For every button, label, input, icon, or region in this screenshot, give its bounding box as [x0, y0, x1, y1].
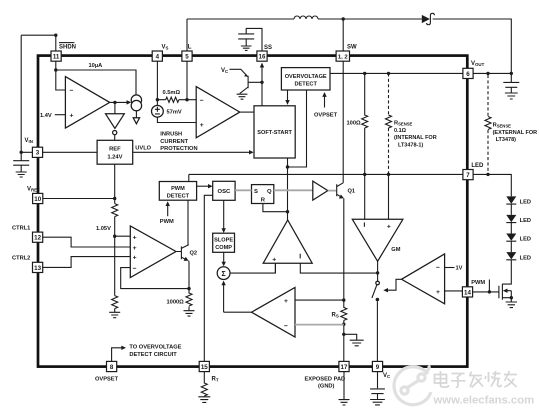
svg-text:COMP: COMP [215, 245, 232, 251]
wire inrush output to SOFT-START [240, 111, 254, 113]
ground (MOSFET source) [506, 298, 517, 308]
svg-text:8: 8 [110, 364, 114, 371]
svg-text:1000Ω: 1000Ω [167, 299, 185, 305]
pin 3 [32, 147, 42, 157]
wire CTRL2 routing [43, 257, 131, 268]
svg-text:57mV: 57mV [167, 109, 182, 115]
svg-text:VIN: VIN [25, 138, 33, 144]
ground (output cap) [505, 93, 518, 99]
resistor divider lower [112, 296, 118, 312]
resistor RSENSE internal (dashed) [386, 73, 392, 174]
pin 9 [372, 361, 382, 371]
svg-text:12: 12 [34, 235, 41, 242]
svg-text:EXPOSED PAD: EXPOSED PAD [305, 376, 346, 382]
svg-text:INRUSH: INRUSH [160, 132, 182, 138]
wire gray sense amp minus to RS bottom [295, 324, 344, 326]
wire sense to inrush minus [187, 99, 196, 101]
svg-text:PROTECTION: PROTECTION [160, 146, 197, 152]
svg-text:13: 13 [34, 265, 41, 272]
wire 10uA feed [56, 70, 136, 95]
wire top rail left segment [187, 18, 294, 20]
IC boundary (thick border) [38, 56, 467, 367]
svg-text:RSENSE: RSENSE [394, 121, 413, 127]
node 10uA tap [54, 68, 57, 71]
svg-text:+: + [200, 122, 204, 129]
wire pin14 to MOSFET gate [473, 291, 499, 293]
svg-text:5: 5 [185, 54, 189, 61]
node VREF [113, 197, 116, 200]
svg-text:SS: SS [264, 45, 272, 51]
node Q2 emitter / 1000 ohm [187, 287, 190, 290]
wire 1V comp output arrow to switch [383, 279, 401, 292]
wire SLOPE COMP to sigma arrow [222, 252, 226, 266]
pin 13 [33, 262, 43, 272]
svg-text:+: + [387, 224, 391, 231]
svg-text:10: 10 [34, 196, 41, 203]
svg-text:14: 14 [464, 289, 471, 296]
svg-text:CTRL1: CTRL1 [12, 225, 30, 231]
watermark logo elecfans [394, 366, 431, 405]
node R tie [286, 210, 289, 213]
wire R input from comparator [263, 204, 288, 212]
svg-text:+: + [436, 289, 440, 296]
wire OVD mid output down-left [288, 90, 307, 167]
node RS bottom [342, 323, 345, 326]
wire top rail right segment down to VOUT node [433, 19, 512, 73]
wire L pin5 riser to top rail [186, 19, 188, 51]
inductor L (external) [294, 16, 318, 19]
node Rsense int bottom [387, 173, 390, 176]
wire OSC to RT pin15 [204, 195, 212, 361]
wire top rail mid segment [318, 18, 422, 20]
LED D2 [506, 196, 531, 215]
wire RS bottom to ground tap and pin17 [343, 324, 345, 361]
resistor RSENSE external (dashed) [485, 75, 491, 173]
pin 15 [199, 361, 209, 371]
transistor Q1 [337, 183, 344, 199]
label 1V [445, 266, 463, 272]
svg-text:10µA: 10µA [89, 63, 103, 69]
svg-text:15: 15 [201, 364, 208, 371]
svg-text:TO OVERVOLTAGE: TO OVERVOLTAGE [129, 345, 181, 351]
wire SW riser (top rail to pin 1,2) [342, 19, 344, 51]
wire pin7 to LED string [473, 174, 511, 196]
latch SR [252, 185, 274, 204]
ground (1000 ohm) [184, 311, 195, 316]
svg-text:0.5mΩ: 0.5mΩ [163, 90, 181, 96]
wire LED line (pin7 to PWM DETECT) [189, 173, 463, 175]
wire GM output [377, 261, 379, 281]
node 1.05V [113, 235, 116, 238]
svg-text:3: 3 [36, 150, 40, 157]
LED D4 [506, 234, 531, 253]
wire PWM DETECT to OSC arrow [197, 184, 213, 188]
node PWM stub [488, 290, 491, 293]
label RSENSE external [493, 123, 538, 144]
svg-text:CURRENT: CURRENT [160, 139, 188, 145]
wire sense amp plus to RS top [295, 299, 344, 301]
transistor PWM MOSFET [499, 262, 513, 300]
node SHDN/VIN tie [54, 34, 57, 37]
wire OVD output down to SOFT-START [285, 90, 289, 105]
ground (RS tap) [344, 334, 364, 346]
svg-text:+: + [70, 113, 74, 120]
svg-text:REF: REF [109, 147, 121, 153]
node pin5 sense right [185, 98, 188, 101]
pin 10 [33, 193, 43, 203]
node Rsense ext bottom [486, 173, 489, 176]
svg-text:9: 9 [376, 364, 380, 371]
transistor Q2 [176, 245, 189, 261]
svg-text:S: S [254, 189, 258, 195]
node 100ohm bottom [363, 173, 366, 176]
pin 11 [51, 51, 61, 61]
wire current amp output up into sigma arrow [221, 281, 225, 313]
node output cap [510, 72, 513, 75]
wire comparator plus leg [274, 263, 276, 273]
svg-text:LT3478): LT3478) [496, 137, 517, 143]
capacitor output cap [503, 73, 519, 92]
svg-text:1, 2: 1, 2 [338, 55, 349, 61]
resistor RT external [201, 372, 207, 397]
op-amp SHDN comparator [65, 77, 109, 129]
op-amp error amp [130, 226, 176, 278]
svg-text:+: + [272, 256, 276, 263]
svg-text:OVPSET: OVPSET [314, 112, 338, 118]
wire sigma output to PWM comparator plus [230, 263, 275, 273]
svg-text:1.24V: 1.24V [107, 155, 122, 161]
svg-text:16: 16 [259, 54, 266, 61]
wire sense amp output to sigma [224, 311, 252, 313]
svg-text:−: − [436, 265, 440, 272]
svg-text:Q2: Q2 [190, 251, 198, 257]
svg-text:VS: VS [162, 45, 169, 51]
wire pin3 to REF [43, 151, 98, 153]
ground (input cap) [16, 172, 27, 177]
inverter after SHDN comparator [106, 102, 125, 140]
node comparator output [113, 101, 116, 104]
diode D1 schottky [422, 13, 435, 24]
svg-text:1.4V: 1.4V [40, 113, 52, 119]
wire pin5 riser [186, 61, 188, 99]
wire 1.4V to plus input [55, 114, 66, 116]
node SW top tee [342, 17, 345, 20]
svg-text:LED: LED [520, 200, 531, 206]
op-amp inrush current protection [196, 87, 240, 138]
svg-text:SOFT-START: SOFT-START [257, 130, 292, 136]
svg-text:−: − [200, 97, 204, 104]
resistor 0.5mOhm [157, 97, 187, 102]
wire VIN rail top-left [21, 35, 56, 152]
wire UVLO to SOFT-START [133, 150, 254, 154]
current source 10uA mirror [131, 95, 141, 124]
wire softstart bottom line to comparator [287, 158, 289, 220]
voltage source 57mV [152, 105, 164, 117]
node GM output / VC sense [376, 271, 379, 274]
svg-text:UVLO: UVLO [135, 145, 151, 151]
svg-text:1V: 1V [456, 266, 463, 272]
svg-text:RS: RS [332, 312, 339, 318]
svg-text:(GND): (GND) [318, 383, 335, 389]
node Rsense ext top [486, 72, 489, 75]
block SLOPE COMP [213, 233, 235, 252]
svg-text:VREF: VREF [27, 187, 40, 193]
wire gray OSC to S [235, 189, 251, 191]
wire CTRL1 routing [43, 237, 131, 247]
svg-text:GM: GM [391, 247, 400, 253]
pin 6 [463, 68, 473, 78]
wire GM plus leg [388, 174, 390, 219]
pin 14 [462, 287, 472, 297]
wire error amp feedback [121, 268, 189, 289]
pin 8 [107, 361, 117, 371]
svg-text:VOUT: VOUT [471, 61, 485, 67]
pin 12 [33, 232, 43, 242]
svg-text:DETECT: DETECT [167, 194, 190, 200]
svg-text:www.elecfans.com: www.elecfans.com [433, 394, 535, 406]
svg-text:OSC: OSC [218, 189, 232, 195]
svg-text:LED: LED [520, 218, 531, 224]
svg-text:PWM: PWM [471, 280, 485, 286]
resistor 100 ohm [362, 73, 368, 174]
svg-text:(EXTERNAL FOR: (EXTERNAL FOR [493, 130, 538, 136]
wire pin10 to VREF node [43, 198, 115, 200]
pin 5 [182, 51, 192, 61]
svg-text:RT: RT [212, 377, 219, 383]
svg-text:17: 17 [341, 364, 348, 371]
switch PWM disconnect [372, 281, 380, 361]
ground (RT) [198, 397, 210, 403]
ground (SS cap) [241, 46, 252, 50]
svg-text:+: + [133, 245, 137, 252]
svg-text:L: L [188, 45, 192, 51]
resistor divider upper [112, 204, 118, 237]
capacitor input cap at VIN [13, 152, 29, 171]
node 100ohm top [363, 72, 366, 75]
LED D5 [506, 252, 531, 261]
op-amp 1V PWM comparator [402, 254, 445, 304]
pin 17 [339, 361, 349, 371]
label SHDN [59, 43, 76, 51]
wire REF bottom to VREF pin10 rail [114, 164, 116, 203]
svg-text:11: 11 [53, 54, 60, 61]
node SS line base [260, 81, 263, 84]
block SOFT-START [254, 106, 295, 158]
wire pin11 into SHDN comparator minus [56, 61, 66, 90]
block PWM DETECT [159, 182, 196, 201]
wire LED line into PWM DETECT [188, 174, 190, 181]
wire OSC to SLOPE COMP arrow [222, 200, 226, 233]
wire Q1 emitter to RS [343, 198, 345, 300]
comparator PWM (current comparator) [263, 220, 312, 263]
svg-text:SHDN: SHDN [59, 44, 76, 50]
wire SS riser with arrow to pin16 [260, 63, 264, 106]
ground (VC cap) [370, 400, 385, 405]
wire OVPSET input arrow into OVD [322, 92, 326, 108]
svg-text:CTRL2: CTRL2 [12, 256, 30, 262]
wire SW riser to Q1 collector [342, 61, 345, 183]
node ground tap [342, 333, 345, 336]
wire 1V comp plus to pin14 [445, 290, 463, 292]
svg-text:RSENSE: RSENSE [493, 123, 512, 129]
node Rsense int top [387, 72, 390, 75]
node pin4 sense left [156, 98, 159, 101]
svg-text:+: + [284, 298, 288, 305]
capacitor SS cap [238, 28, 262, 51]
svg-text:DETECT CIRCUIT: DETECT CIRCUIT [129, 352, 177, 358]
resistor 1000 ohm [186, 289, 192, 311]
pin 1,2 SW [336, 51, 349, 61]
svg-text:(INTERNAL FOR: (INTERNAL FOR [394, 135, 437, 141]
svg-text:PWM: PWM [171, 186, 185, 192]
watermark text CJK strokes [435, 371, 518, 388]
node VIN [20, 151, 23, 154]
svg-text:100Ω: 100Ω [347, 121, 361, 127]
svg-text:7: 7 [466, 172, 470, 179]
svg-text:6: 6 [466, 71, 470, 78]
svg-text:DETECT: DETECT [295, 82, 318, 88]
svg-text:LT3478-1): LT3478-1) [398, 142, 423, 148]
svg-text:OVERVOLTAGE: OVERVOLTAGE [285, 74, 327, 80]
pin 7 [463, 170, 473, 180]
block OSC [213, 181, 235, 200]
wire 1.05V to error amp [115, 236, 131, 295]
svg-text:−: − [133, 265, 137, 272]
svg-text:+: + [133, 255, 137, 262]
wire gray Q to driver [274, 189, 313, 191]
pin 4 [152, 51, 162, 61]
svg-text:Q1: Q1 [348, 188, 356, 194]
node RS top [342, 298, 345, 301]
svg-text:LED: LED [520, 237, 531, 243]
wire comparator output to mirror [110, 100, 132, 104]
wire comparator minus leg to VC node [300, 263, 377, 273]
wire Q2 emitter down [188, 261, 190, 289]
summer sigma [217, 267, 230, 280]
wire PWM external stub [488, 280, 490, 292]
block REF 1.24V [97, 140, 133, 164]
resistor RS [341, 300, 347, 324]
buffer driver [313, 181, 328, 200]
node softstart bottom tie [286, 165, 289, 168]
svg-text:SLOPE: SLOPE [214, 238, 233, 244]
svg-text:Σ: Σ [221, 271, 225, 278]
op-amp current sense amp [252, 287, 296, 337]
block OVERVOLTAGE DETECT [281, 68, 330, 90]
wire pin6 to output cap [473, 72, 511, 74]
LED D3 [506, 215, 531, 234]
wire GM minus leg [364, 174, 366, 219]
svg-text:PWM: PWM [160, 219, 174, 225]
svg-text:VC: VC [221, 68, 229, 74]
wire 57mV to inrush plus [157, 117, 196, 122]
wire gray driver to Q1 base [328, 190, 337, 192]
svg-text:4: 4 [156, 54, 160, 61]
svg-text:Q: Q [267, 189, 272, 195]
pin 16 [257, 51, 267, 61]
svg-text:0.1Ω: 0.1Ω [394, 128, 407, 134]
svg-text:1.05V: 1.05V [96, 226, 111, 232]
wire pin4 riser [156, 61, 158, 105]
ground (exposed pad) [339, 372, 350, 405]
svg-text:SW: SW [347, 45, 357, 51]
svg-text:VC: VC [383, 373, 391, 379]
svg-text:R: R [261, 198, 266, 204]
ground (VC clamp) [237, 94, 248, 99]
ground (divider) [109, 312, 120, 317]
svg-text:OVPSET: OVPSET [95, 376, 119, 382]
wire SHDN drop to pin 11 [55, 35, 57, 51]
wire Q2 collector to PWM DETECT [187, 200, 190, 245]
capacitor VC comp cap [370, 372, 385, 400]
svg-text:−: − [284, 323, 288, 330]
wire pin8 OVPSET arrow [112, 346, 126, 362]
wire PWM input arrow [166, 201, 170, 216]
svg-text:LED: LED [471, 163, 484, 169]
label RSENSE internal [394, 121, 437, 149]
svg-text:−: − [70, 88, 74, 95]
transistor VC clamp PNP [230, 69, 263, 93]
svg-text:LED: LED [520, 255, 531, 261]
op-amp GM [352, 219, 403, 261]
wire VOUT line (OVD to pin6) [330, 72, 463, 74]
svg-text:+: + [133, 234, 137, 241]
